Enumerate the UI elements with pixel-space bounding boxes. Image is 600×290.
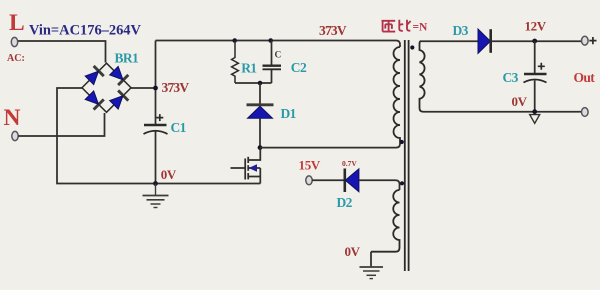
svg-text:AC:: AC: [7,53,25,64]
bridge diode bottom-left (BR1) [84,90,103,109]
svg-text:C3: C3 [503,70,519,85]
transformer T1 auxiliary winding [371,190,400,252]
wire 0V rail to MOSFET source [156,183,261,185]
wire bridge left corner down to 0V rail [57,88,156,184]
wire D3 cathode to out+ terminal [491,40,582,42]
diode D3 (output rectifier) [478,29,490,53]
svg-text:N: N [4,105,21,131]
wire L terminal to bridge top corner [17,41,106,63]
plus sign of C1 [156,114,163,121]
svg-text:BR1: BR1 [115,51,140,66]
svg-text:0V: 0V [512,94,528,109]
transformer T1 core [404,40,406,271]
terminal out+ [582,36,589,45]
wire N terminal to bridge bottom corner [18,113,105,136]
polarity dot primary [400,140,404,144]
svg-text:Out: Out [574,70,596,85]
junction node 0V (primary ground) [153,181,158,186]
svg-text:D1: D1 [281,106,297,121]
bridge rectifier BR1 diamond [82,63,131,112]
wire 15V terminal to D2 cathode [312,179,345,181]
junction node drain [258,145,263,150]
terminal 15V (aux output) [306,176,312,185]
junction node secondary 0V [532,109,537,114]
diode D1 (clamp, cathode up) [247,103,274,106]
wire bridge right corner to 373V node [131,87,156,89]
plus sign at out+ [589,37,596,44]
wire D1 anode to drain node [259,118,261,147]
ground aux (earth symbol) [360,267,384,279]
ground (primary, earth symbol) [143,184,169,208]
wire snubber join to D1 cathode [259,83,261,104]
label turns-ratio 匝比 (drawn glyphs) [382,20,411,32]
svg-text:0.7V: 0.7V [342,159,357,168]
polarity dot secondary [410,45,414,49]
wire R1/C2 bottom join [235,82,272,84]
junction dot R1 branch on rail [232,38,237,43]
svg-text:=N: =N [413,22,429,34]
svg-text:L: L [9,10,25,36]
svg-text:0V: 0V [161,167,177,182]
wire 373V vertical branch upper (rail corner to C1) [155,41,157,125]
svg-text:12V: 12V [525,18,547,33]
svg-text:C1: C1 [171,120,187,135]
transistor Q1 (N-channel MOSFET switch) [231,150,261,184]
svg-text:15V: 15V [299,158,321,173]
diode D2 (aux rectifier, cathode left) [343,169,346,193]
wire aux winding bottom to ground [370,252,372,267]
transformer T1 primary winding [393,47,400,141]
terminal L (AC live input) [11,37,17,46]
wire secondary top to D3 anode [421,40,478,42]
svg-text:0V: 0V [345,244,361,259]
capacitor C3 (output filter, polarized) [534,41,536,73]
wire secondary bottom rail to out- terminal [423,111,582,113]
junction node 373V (bridge output) [153,86,158,91]
wire D2 anode to aux winding top [359,180,400,190]
junction node 12V [532,39,537,44]
junction dot C2 branch on rail [268,38,273,43]
transformer T1 secondary winding [420,41,425,112]
svg-text:R1: R1 [241,60,257,75]
terminal out- [582,108,589,117]
resistor R1 (snubber) [232,41,239,84]
svg-text:373V: 373V [319,23,347,38]
svg-text:D2: D2 [337,195,353,210]
plus sign of C3 [538,63,545,70]
capacitor C1 (bulk electrolytic, polarized) [144,124,167,127]
svg-text:D3: D3 [453,23,469,38]
svg-text:373V: 373V [162,80,190,95]
wire drain node to primary bottom [260,141,400,148]
svg-text:Vin=AC176–264V: Vin=AC176–264V [29,23,142,39]
svg-text:C: C [275,51,282,61]
ground secondary (open triangle) [530,115,540,124]
junction dot snubber join [258,81,263,86]
wire C1 bottom to 0V rail [155,132,157,184]
wire 373V top rail to transformer primary [156,41,401,48]
bridge diode top-right (BR1) [109,66,128,85]
capacitor C2 (snubber) [271,41,273,66]
terminal N (AC neutral input) [12,131,18,140]
polarity dot aux [400,181,404,185]
svg-text:C2: C2 [291,60,307,75]
bridge diode top-left (BR1) [84,66,103,85]
bridge diode bottom-right (BR1) [109,90,128,109]
